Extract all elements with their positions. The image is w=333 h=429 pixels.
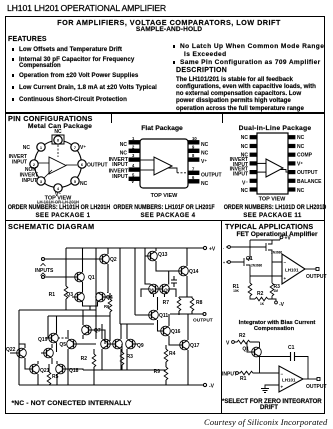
- Q14 collector wire: [186, 248, 188, 266]
- Q13 emitter wire: [156, 261, 176, 271]
- R2 wires: [93, 349, 95, 385]
- input wire 1: [226, 246, 262, 248]
- R1: [248, 283, 252, 296]
- wire left drop: [65, 248, 67, 277]
- R6 wires: [109, 293, 111, 341]
- svg-text:+: +: [281, 385, 284, 390]
- svg-text:OUTPUT: OUTPUT: [193, 318, 213, 324]
- svg-text:Q19: Q19: [38, 337, 48, 343]
- FEATURES heading: [8, 36, 47, 43]
- long horizontal y370: [83, 369, 166, 371]
- dashed wire Q18: [68, 368, 76, 370]
- svg-text:Q2: Q2: [110, 257, 117, 263]
- svg-text:−: −: [284, 260, 287, 265]
- resistor R7: [177, 298, 181, 311]
- flat pkg labels: [109, 142, 222, 199]
- Q22 wires: [10, 344, 25, 364]
- Q6 wires: [102, 324, 121, 370]
- svg-text:3: 3: [132, 153, 135, 158]
- transistor Q16: [158, 326, 170, 336]
- svg-text:NC: NC: [241, 144, 249, 150]
- SCHEMATIC DIAGRAM heading: [8, 222, 95, 231]
- svg-text:R8: R8: [196, 300, 203, 306]
- section divider: [5, 220, 325, 222]
- svg-text:NC: NC: [241, 188, 249, 194]
- svg-text:INPUTS: INPUTS: [35, 268, 54, 274]
- resistor R4: [164, 349, 168, 362]
- transistor Q10: [110, 339, 122, 349]
- input wire bottom: [45, 276, 76, 278]
- R1: [238, 371, 279, 375]
- svg-text:INPUT: INPUT: [222, 372, 237, 378]
- op-amp triangle: [266, 159, 283, 177]
- Q1 wires: [247, 342, 260, 373]
- svg-text:TOP VIEW: TOP VIEW: [151, 193, 179, 199]
- svg-text:Q7: Q7: [94, 328, 101, 334]
- transistor Q20: [41, 348, 53, 358]
- R3 wires: [121, 344, 123, 370]
- svg-text:Q21: Q21: [40, 368, 50, 374]
- svg-text:Q13: Q13: [158, 252, 168, 258]
- input terminal top: [42, 258, 45, 261]
- Q3 Q4 emitter join: [83, 292, 111, 310]
- transistor Q6: [101, 339, 113, 349]
- resistor R2: [92, 354, 96, 367]
- op-amp triangle inside can: [49, 157, 66, 174]
- op-amp triangle: [279, 366, 303, 392]
- pin 7: [71, 143, 79, 151]
- svg-text:7: 7: [74, 145, 76, 150]
- long vertical x120: [120, 248, 154, 324]
- Q2 emitter wire: [107, 264, 109, 293]
- svg-text:-V: -V: [209, 384, 215, 390]
- output wire: [303, 378, 317, 380]
- feature bullets right: [180, 43, 324, 50]
- R7 wires: [178, 297, 180, 315]
- resistor R5: [47, 372, 51, 385]
- transistor Q2: [97, 254, 109, 264]
- long vertical x96: [95, 248, 97, 339]
- transistor Q9 low: [126, 339, 138, 349]
- svg-text:NC: NC: [80, 181, 88, 187]
- svg-text:Q3: Q3: [66, 292, 73, 298]
- body: [140, 139, 188, 188]
- +V rail: [250, 239, 280, 241]
- svg-text:Q9: Q9: [164, 288, 170, 293]
- svg-text:LH 101H OR LH 201H: LH 101H OR LH 201H: [37, 200, 79, 205]
- -V terminal: [275, 301, 278, 304]
- courtesy note: [204, 417, 327, 427]
- +V terminal: [203, 246, 206, 249]
- left pins: [129, 141, 199, 184]
- +V rail: [66, 247, 203, 249]
- can outline: [35, 141, 82, 188]
- ground symbol: [261, 389, 269, 393]
- page title: [7, 3, 166, 13]
- body: [257, 133, 288, 194]
- svg-text:Q1: Q1: [246, 256, 253, 262]
- svg-text:NC: NC: [201, 142, 209, 148]
- svg-text:10: 10: [192, 136, 197, 141]
- subtitle line 1: [57, 18, 281, 27]
- R2 horizontal: [234, 340, 259, 344]
- resistor R3: [120, 352, 124, 365]
- svg-text:Q18: Q18: [69, 368, 79, 374]
- svg-text:NC: NC: [120, 151, 128, 157]
- Q13 base wire: [144, 248, 146, 256]
- transistor Q19: [46, 333, 58, 343]
- Q11 collector/emitter: [157, 297, 160, 331]
- labels: [222, 333, 327, 390]
- transistor Q14: [176, 266, 188, 276]
- capacitor C1: [291, 352, 295, 361]
- svg-text:R2: R2: [81, 356, 88, 362]
- output terminal: [203, 313, 206, 316]
- R4 wires: [165, 345, 167, 367]
- R2 horizontal: [255, 297, 276, 301]
- wire y310: [19, 309, 96, 311]
- Q5 wires: [68, 330, 96, 385]
- long vertical x135: [135, 248, 146, 315]
- -V rail: [19, 384, 203, 386]
- wire y316: [48, 315, 110, 317]
- smudged overprint line: [37, 200, 79, 205]
- Q19 wires: [48, 316, 57, 352]
- FET Q1: [240, 240, 250, 276]
- svg-text:NC: NC: [297, 135, 305, 141]
- op-amp input wires: [250, 262, 282, 276]
- pin 2: [30, 160, 38, 168]
- pin 4: [54, 184, 62, 192]
- transistor Q17: [177, 340, 189, 350]
- input terminal 2: [228, 261, 231, 264]
- flat pkg pin numbers: [132, 136, 197, 180]
- input wire top: [45, 258, 98, 260]
- output terminal: [316, 268, 319, 271]
- Q21 wires: [25, 361, 38, 385]
- ground wire: [265, 385, 279, 388]
- svg-text:R6: R6: [104, 304, 110, 309]
- transistor Q1: [249, 347, 261, 357]
- pin 8: [54, 136, 62, 144]
- svg-text:Q4: Q4: [106, 295, 113, 301]
- svg-text:OUTPUT: OUTPUT: [306, 274, 327, 280]
- svg-text:V⁻: V⁻: [131, 179, 137, 185]
- svg-text:OUTPUT: OUTPUT: [201, 173, 222, 179]
- svg-text:R2: R2: [239, 333, 246, 339]
- description paragraph: [176, 76, 316, 112]
- svg-text:4: 4: [132, 163, 135, 168]
- svg-text:R9: R9: [154, 369, 161, 375]
- svg-text:INPUT: INPUT: [112, 162, 129, 168]
- package titles: [28, 123, 92, 130]
- svg-text:Q16: Q16: [171, 329, 181, 335]
- output wire: [170, 313, 203, 315]
- svg-text:COMP: COMP: [297, 153, 313, 159]
- R8 wires: [179, 297, 192, 314]
- dip labels: [230, 135, 322, 202]
- Q18 wires: [57, 361, 83, 385]
- V terminal: [232, 341, 235, 344]
- svg-text:R5: R5: [52, 374, 59, 380]
- schematic labels: [6, 247, 216, 390]
- transistor Q1: [72, 272, 84, 282]
- svg-text:Q8: Q8: [148, 288, 154, 293]
- svg-text:INPUT: INPUT: [112, 174, 129, 180]
- svg-text:OUTPUT: OUTPUT: [87, 163, 108, 169]
- R5 wires: [48, 364, 50, 385]
- input wire 2: [226, 261, 240, 263]
- resistor R6: [108, 299, 112, 312]
- svg-text:V⁻: V⁻: [242, 181, 248, 187]
- transistor Q9: [157, 284, 169, 294]
- Q13 collector wire: [155, 248, 157, 251]
- Q9 low wires: [126, 324, 128, 370]
- Q8/Q9 base join: [141, 289, 176, 297]
- R9 wires: [165, 380, 167, 385]
- svg-text:BALANCE: BALANCE: [297, 179, 322, 185]
- right pins: [188, 141, 199, 145]
- FET Q2 top: [262, 240, 272, 262]
- svg-text:INPUT: INPUT: [233, 172, 248, 178]
- Q20 wires: [51, 344, 53, 364]
- +V terminal: [280, 236, 283, 239]
- svg-text:-V: -V: [279, 302, 285, 308]
- svg-text:OUTPUT: OUTPUT: [297, 170, 318, 176]
- Q16 collector: [168, 314, 170, 326]
- wire left vert: [18, 310, 20, 385]
- select note: [222, 398, 322, 405]
- svg-text:Q11: Q11: [159, 313, 168, 319]
- NC note: [12, 400, 132, 407]
- resistor R1: [64, 286, 68, 299]
- svg-text:V⁺: V⁺: [80, 145, 86, 151]
- svg-text:-: -: [223, 246, 225, 250]
- input terminal bottom: [42, 276, 45, 279]
- transistor Q13: [145, 251, 157, 261]
- input caret marks: [41, 264, 46, 276]
- svg-text:R7: R7: [163, 300, 170, 306]
- divider under features: [5, 112, 325, 114]
- R3: [270, 283, 274, 296]
- svg-text:Q1: Q1: [242, 347, 249, 353]
- resistor R8: [190, 298, 194, 311]
- svg-text:LH101: LH101: [282, 378, 296, 383]
- can pin labels: [9, 129, 108, 202]
- transistor Q7: [82, 325, 94, 335]
- Q8/Q9 collector wires: [145, 256, 169, 297]
- output terminal: [317, 378, 320, 381]
- svg-text:2N3686: 2N3686: [271, 251, 282, 255]
- left pins: [250, 136, 295, 192]
- svg-text:R3: R3: [127, 354, 134, 360]
- transistor Q22: [14, 348, 26, 358]
- svg-text:OUTPUT: OUTPUT: [306, 384, 327, 390]
- svg-text:V: V: [226, 341, 230, 347]
- transistor Q11: [146, 310, 158, 320]
- Q1 emitter wire: [82, 282, 84, 292]
- output wire: [305, 268, 316, 270]
- svg-text:NC: NC: [120, 142, 128, 148]
- transistor Q5: [67, 339, 79, 349]
- svg-text:NC: NC: [201, 181, 209, 187]
- feedback wire with C1: [260, 357, 309, 380]
- svg-text:V⁺: V⁺: [201, 159, 207, 165]
- svg-text:+: +: [223, 261, 225, 265]
- op-amp triangle: [282, 254, 305, 284]
- R1 wires: [65, 277, 67, 310]
- svg-text:−: −: [281, 372, 284, 377]
- -V terminal: [203, 383, 206, 386]
- svg-text:R1: R1: [240, 376, 247, 382]
- capacitor C comp: [171, 276, 177, 287]
- R1 wires: [250, 276, 255, 299]
- svg-text:Q14: Q14: [189, 269, 199, 275]
- transistor Q8: [149, 284, 161, 294]
- svg-text:INPUT: INPUT: [22, 178, 37, 184]
- svg-text:1K: 1K: [260, 302, 265, 306]
- svg-text:C1: C1: [288, 345, 295, 351]
- svg-text:LH101: LH101: [285, 268, 299, 273]
- pin 3: [37, 177, 45, 185]
- Q7 wires: [83, 310, 105, 344]
- PIN CONFIGURATIONS heading: [8, 114, 93, 123]
- transistor Q4: [96, 292, 108, 302]
- subtitle line 2: [136, 26, 202, 33]
- Q14 emitter wire: [186, 276, 188, 297]
- svg-text:Q1: Q1: [88, 275, 95, 281]
- svg-text:Q22: Q22: [6, 347, 16, 353]
- svg-text:V⁺: V⁺: [297, 161, 303, 167]
- pin 1: [37, 143, 45, 151]
- op-amp triangle: [154, 157, 172, 175]
- R3 wires: [271, 262, 273, 299]
- transistor Q21: [27, 364, 39, 374]
- right pins: [288, 136, 295, 139]
- transistor Q3: [72, 292, 84, 302]
- svg-text:Q17: Q17: [190, 343, 200, 349]
- svg-text:TOP VIEW: TOP VIEW: [259, 197, 287, 203]
- svg-text:+V: +V: [209, 247, 216, 253]
- svg-text:NC: NC: [54, 129, 62, 135]
- dashed comp wire: [58, 337, 68, 339]
- order numbers: [8, 204, 111, 211]
- svg-text:1M: 1M: [274, 289, 279, 293]
- resistor R9: [164, 367, 168, 380]
- svg-text:Q5: Q5: [59, 342, 66, 348]
- feature bullets left: [19, 46, 122, 53]
- pin 5: [71, 177, 79, 185]
- svg-text:2N3686: 2N3686: [251, 264, 262, 268]
- svg-text:NC: NC: [23, 145, 31, 151]
- svg-text:NC: NC: [201, 151, 209, 157]
- svg-text:8: 8: [192, 153, 195, 158]
- labels: [223, 236, 327, 309]
- integrator heading: [239, 320, 316, 326]
- DESCRIPTION heading: [176, 67, 227, 74]
- vertical divider: [221, 220, 223, 413]
- transistor Q18: [56, 364, 68, 374]
- svg-text:R1: R1: [49, 292, 56, 298]
- Q17 collector: [187, 314, 189, 340]
- input terminal: [236, 372, 239, 375]
- Q2 collector wire: [107, 248, 109, 254]
- svg-text:+: +: [284, 276, 287, 281]
- input terminal 1: [228, 246, 231, 249]
- pin 6: [78, 160, 86, 168]
- Q16 emitter: [169, 336, 177, 345]
- pin 8 tab: [52, 135, 64, 144]
- svg-text:+V: +V: [285, 236, 292, 242]
- Q17 emitter: [187, 350, 189, 385]
- svg-text:R2: R2: [257, 291, 264, 297]
- svg-text:Q9: Q9: [137, 343, 144, 349]
- svg-text:NC: NC: [241, 135, 249, 141]
- TYPICAL APPLICATIONS heading: [225, 222, 313, 231]
- Q1 collector wire: [82, 248, 84, 272]
- svg-text:R4: R4: [169, 351, 176, 357]
- svg-text:10K: 10K: [233, 289, 240, 293]
- svg-text:NC: NC: [297, 144, 305, 150]
- svg-text:NC: NC: [297, 188, 305, 194]
- svg-text:INPUT: INPUT: [12, 160, 27, 166]
